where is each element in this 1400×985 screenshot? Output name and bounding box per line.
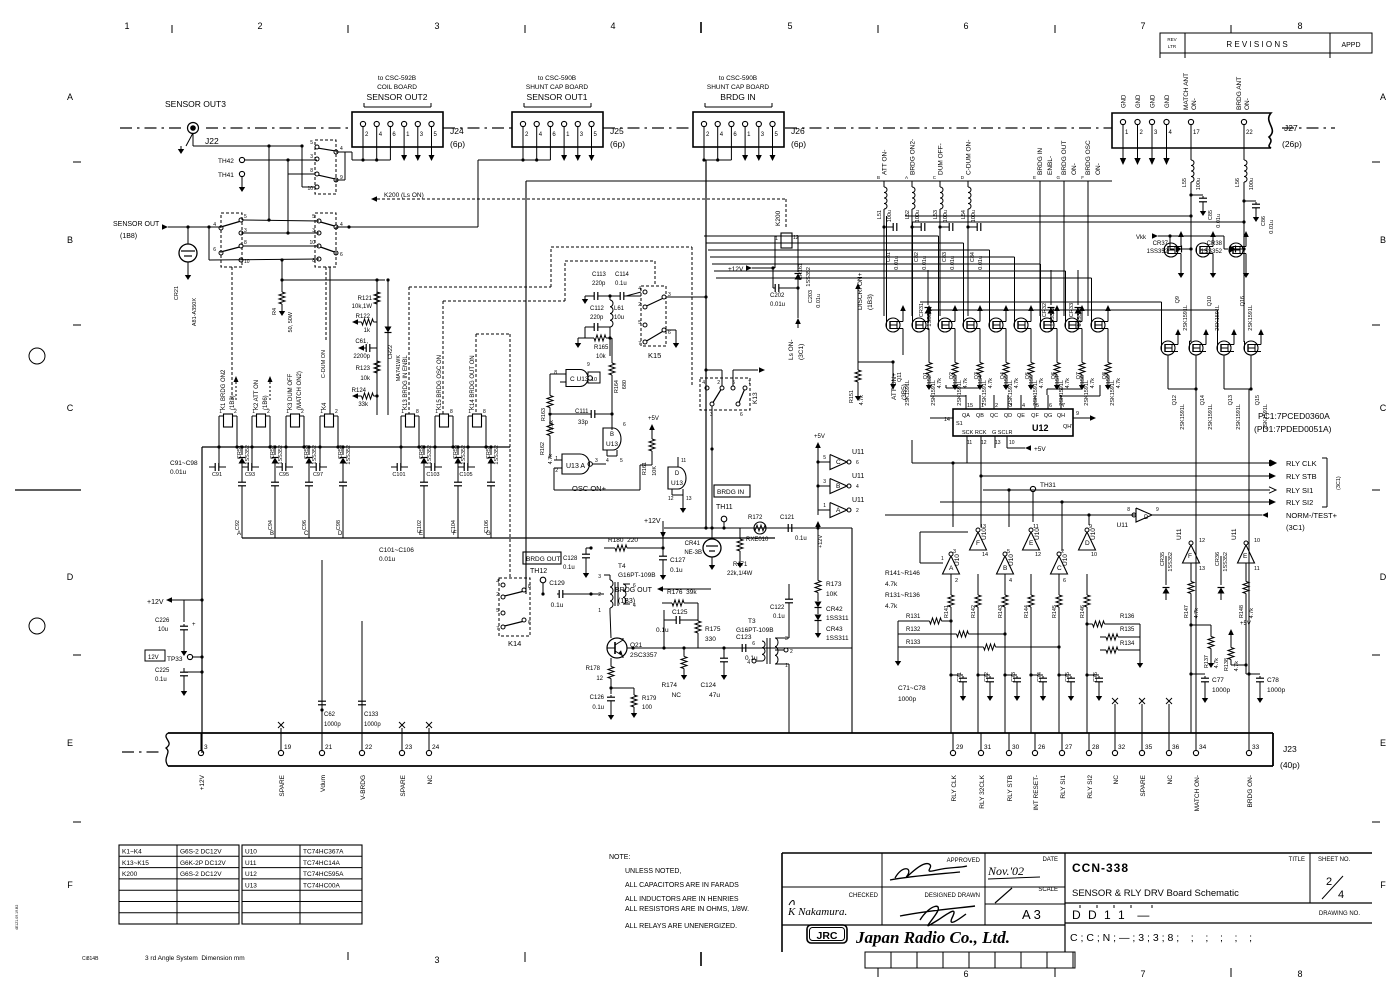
NAND gate U13A bbox=[554, 454, 606, 474]
svg-text:J25: J25 bbox=[610, 126, 624, 136]
connector J25 bbox=[512, 75, 625, 162]
svg-text:5: 5 bbox=[310, 140, 313, 146]
net C-DUM ON wire bbox=[321, 267, 330, 414]
svg-text:Q11: Q11 bbox=[897, 372, 903, 382]
svg-text:G6S-2 DC12V: G6S-2 DC12V bbox=[180, 871, 222, 878]
svg-text:BRDG IN: BRDG IN bbox=[720, 92, 755, 102]
svg-text:6: 6 bbox=[1063, 578, 1066, 584]
svg-text:5: 5 bbox=[312, 214, 315, 220]
svg-text:CR31: CR31 bbox=[919, 303, 925, 317]
svg-text:330: 330 bbox=[705, 636, 716, 643]
svg-text:C: C bbox=[67, 403, 74, 413]
left margin tiny text bbox=[15, 905, 19, 930]
svg-text:C-DUM ON: C-DUM ON bbox=[321, 350, 327, 378]
svg-text:U13: U13 bbox=[606, 441, 618, 448]
surge arrester CR21 bbox=[174, 227, 198, 326]
svg-text:5: 5 bbox=[1036, 403, 1039, 409]
svg-text:C75: C75 bbox=[1065, 672, 1071, 682]
svg-text:6: 6 bbox=[856, 460, 859, 466]
svg-text:G6S-2 DC12V: G6S-2 DC12V bbox=[180, 849, 222, 856]
capacitor C101 bbox=[391, 447, 408, 478]
svg-text:8: 8 bbox=[416, 409, 419, 415]
transistor Q8 bbox=[1091, 305, 1116, 406]
diode CR33 bbox=[1069, 270, 1083, 330]
svg-text:C85: C85 bbox=[1208, 210, 1214, 220]
svg-text:2SK1591L: 2SK1591L bbox=[1208, 404, 1214, 430]
svg-text:TC74HC14A: TC74HC14A bbox=[303, 860, 341, 867]
svg-text:SHUNT CAP BOARD: SHUNT CAP BOARD bbox=[707, 84, 770, 91]
vertical from J25 region bbox=[525, 181, 527, 594]
svg-text:K200: K200 bbox=[775, 210, 782, 226]
svg-text:4.7k: 4.7k bbox=[1234, 661, 1240, 672]
X mark pin 429 bbox=[426, 722, 432, 733]
svg-text:9: 9 bbox=[1156, 507, 1159, 513]
inductor L56 and capacitor C86 bbox=[1235, 125, 1275, 234]
svg-text:Ci814B: Ci814B bbox=[82, 956, 99, 962]
svg-text:C129: C129 bbox=[549, 580, 565, 587]
svg-text:ALL INDUCTORS ARE IN HENRIES: ALL INDUCTORS ARE IN HENRIES bbox=[625, 896, 739, 903]
svg-text:C96: C96 bbox=[302, 520, 308, 530]
transistor Q16 bbox=[1229, 231, 1254, 331]
svg-text:34: 34 bbox=[1199, 744, 1207, 751]
bracket 3C1 bbox=[1322, 458, 1342, 507]
inverter U10E bbox=[1023, 524, 1042, 558]
svg-text:13: 13 bbox=[1199, 566, 1205, 572]
transistor Q5 bbox=[1014, 305, 1039, 406]
svg-text:QD: QD bbox=[1004, 413, 1012, 419]
net SENSOR OUT 1B8 bbox=[113, 221, 221, 240]
svg-text:T3: T3 bbox=[748, 618, 756, 625]
svg-text:(40p): (40p) bbox=[1280, 760, 1300, 770]
capacitor C75 bbox=[1057, 672, 1075, 701]
svg-text:RLY SI1: RLY SI1 bbox=[1286, 486, 1313, 495]
Q12-Q15 gate wires bbox=[920, 249, 1245, 348]
svg-text:1000p: 1000p bbox=[1267, 687, 1285, 694]
transformer T4 bbox=[591, 563, 656, 614]
net RLY CLK bbox=[912, 440, 1317, 468]
diode CR22 bbox=[385, 278, 403, 415]
svg-text:RXE010: RXE010 bbox=[746, 537, 769, 543]
svg-text:R163: R163 bbox=[541, 408, 547, 421]
svg-text:R162: R162 bbox=[540, 442, 546, 455]
inductor L52 capacitor C82 bbox=[905, 210, 928, 270]
svg-text:E: E bbox=[1029, 540, 1034, 547]
svg-text:(1B3): (1B3) bbox=[230, 395, 236, 410]
capacitor C225 bbox=[155, 668, 204, 696]
J23 pin 27 RLY SI1 bbox=[1059, 733, 1072, 799]
svg-text:1000p: 1000p bbox=[364, 722, 381, 728]
svg-text:C105: C105 bbox=[459, 472, 472, 478]
svg-text:4: 4 bbox=[856, 484, 859, 490]
J23 pin 22 V-BRDG bbox=[359, 733, 372, 800]
svg-text:0.01u: 0.01u bbox=[950, 256, 956, 270]
svg-text:24: 24 bbox=[432, 744, 440, 751]
svg-text:E: E bbox=[1243, 553, 1248, 560]
svg-text:10: 10 bbox=[1009, 440, 1015, 446]
svg-text:NC: NC bbox=[427, 775, 434, 785]
svg-text:R138: R138 bbox=[1224, 658, 1230, 671]
svg-text:U13 A: U13 A bbox=[566, 463, 585, 470]
svg-text:R172: R172 bbox=[748, 515, 763, 521]
svg-text:47u: 47u bbox=[709, 692, 720, 699]
svg-text:CR36: CR36 bbox=[1215, 552, 1221, 566]
svg-text:0.1u: 0.1u bbox=[670, 567, 683, 574]
svg-text:JRC: JRC bbox=[816, 930, 837, 942]
label C101-C106 bbox=[379, 547, 414, 563]
svg-text:C91~C98: C91~C98 bbox=[170, 460, 198, 467]
svg-text:5: 5 bbox=[823, 455, 826, 461]
dashed link K14 route bbox=[476, 334, 510, 578]
svg-text:+12V: +12V bbox=[818, 535, 824, 548]
svg-text:G: G bbox=[1056, 175, 1060, 180]
svg-text:1000p: 1000p bbox=[324, 722, 341, 728]
svg-text:K15: K15 bbox=[648, 351, 661, 360]
svg-text:1SS352: 1SS352 bbox=[312, 445, 318, 465]
resistor R161 bbox=[642, 416, 659, 476]
resistor R165 bbox=[575, 327, 612, 360]
svg-text:+5V: +5V bbox=[648, 416, 659, 422]
svg-text:0.1u: 0.1u bbox=[656, 627, 669, 634]
bottom margin text 3rd angle bbox=[145, 955, 245, 962]
svg-text:NC: NC bbox=[1167, 775, 1174, 785]
capacitor C71 bbox=[949, 672, 967, 701]
svg-text:K4: K4 bbox=[322, 402, 328, 410]
wire J24 to contacts bbox=[345, 152, 363, 160]
net DISCRI ON+ bbox=[855, 272, 874, 362]
svg-text:(6p): (6p) bbox=[450, 139, 465, 149]
capacitor C97 bbox=[310, 447, 327, 478]
svg-text:5: 5 bbox=[496, 608, 499, 614]
resistor chain R121 R122 C61 R123 R124 bbox=[352, 278, 380, 415]
relay return bus with letters bbox=[237, 530, 775, 538]
svg-text:1SS352: 1SS352 bbox=[1223, 552, 1229, 572]
wire T4 to Q21 bbox=[610, 612, 611, 638]
svg-text:R136: R136 bbox=[1120, 614, 1135, 620]
svg-text:Vdum: Vdum bbox=[320, 775, 327, 792]
resistor R152 bbox=[926, 355, 943, 390]
relay contacts K2 bbox=[309, 213, 343, 267]
+5V feed U11 bbox=[814, 434, 825, 515]
inverter U11C bbox=[816, 449, 864, 470]
inverter U10A bbox=[943, 549, 962, 584]
wire pin34 col bbox=[1195, 460, 1197, 733]
svg-text:10k,1W: 10k,1W bbox=[352, 304, 373, 310]
svg-text:0.01u: 0.01u bbox=[770, 302, 785, 308]
main wire y181 bbox=[526, 180, 1112, 182]
svg-text:L54: L54 bbox=[961, 210, 967, 219]
svg-text:10: 10 bbox=[309, 240, 315, 246]
svg-text:5: 5 bbox=[244, 214, 247, 220]
diode CR36 bbox=[1215, 552, 1229, 600]
svg-text:3: 3 bbox=[310, 154, 313, 160]
J23 pin 19 SPARE bbox=[278, 733, 291, 797]
svg-text:F: F bbox=[453, 531, 457, 537]
svg-text:2: 2 bbox=[638, 302, 641, 308]
svg-text:10u: 10u bbox=[614, 315, 624, 321]
Q11 source gnd bbox=[902, 354, 904, 356]
svg-text:C103: C103 bbox=[426, 472, 439, 478]
svg-text:K14: K14 bbox=[508, 639, 521, 648]
svg-text:C91: C91 bbox=[212, 472, 222, 478]
svg-text:U12: U12 bbox=[1032, 423, 1049, 433]
svg-text:BRDG ANT: BRDG ANT bbox=[1236, 77, 1243, 110]
svg-text:2: 2 bbox=[1326, 876, 1332, 888]
wires K1 K2 contacts bbox=[209, 160, 478, 262]
svg-text:CCN-338: CCN-338 bbox=[1072, 861, 1129, 875]
svg-text:RLY 32CLK: RLY 32CLK bbox=[979, 774, 986, 808]
svg-text:7: 7 bbox=[638, 341, 641, 347]
svg-text:10: 10 bbox=[1254, 538, 1260, 544]
svg-text:SPARE: SPARE bbox=[400, 774, 407, 796]
svg-text:4.7k: 4.7k bbox=[1116, 378, 1122, 389]
net label BRDG ON2- bbox=[910, 139, 917, 316]
svg-text:T4: T4 bbox=[618, 563, 626, 570]
svg-text:R145: R145 bbox=[1052, 605, 1058, 618]
svg-text:11: 11 bbox=[1033, 524, 1039, 530]
svg-text:K13~K15: K13~K15 bbox=[122, 860, 149, 867]
svg-text:QE: QE bbox=[1017, 413, 1025, 419]
transformer T3 bbox=[736, 618, 793, 669]
wire Vdum bbox=[320, 560, 323, 733]
K200 Ls ON dashed link bbox=[371, 192, 786, 228]
svg-text:2: 2 bbox=[717, 380, 720, 386]
J23 pin 26 INT RESET- bbox=[1032, 733, 1045, 811]
svg-text:0.01u: 0.01u bbox=[170, 469, 187, 476]
svg-text:7: 7 bbox=[496, 626, 499, 632]
svg-text:LTR: LTR bbox=[1168, 44, 1177, 49]
svg-text:QF: QF bbox=[1031, 413, 1039, 419]
svg-text:7: 7 bbox=[748, 380, 751, 386]
svg-text:TH31: TH31 bbox=[1040, 482, 1056, 489]
svg-text:2SK1591L: 2SK1591L bbox=[1180, 404, 1186, 430]
resistor R155 bbox=[1003, 355, 1020, 390]
svg-text:CR22: CR22 bbox=[388, 345, 394, 359]
svg-text:Q9: Q9 bbox=[1175, 296, 1181, 303]
svg-text:L51: L51 bbox=[877, 210, 883, 219]
svg-text:2: 2 bbox=[995, 403, 998, 409]
svg-text:PC1:7PCED0360A: PC1:7PCED0360A bbox=[1258, 411, 1330, 421]
IC type table bbox=[242, 845, 362, 924]
capacitor C226 bbox=[155, 600, 202, 656]
svg-text:6: 6 bbox=[668, 330, 671, 336]
svg-text:11: 11 bbox=[681, 458, 686, 464]
svg-text:Vkk: Vkk bbox=[1136, 235, 1147, 241]
svg-text:12V: 12V bbox=[148, 655, 159, 661]
svg-text:(3C1): (3C1) bbox=[1286, 523, 1305, 532]
capacitor C93 bbox=[242, 447, 259, 478]
svg-text:A: A bbox=[67, 92, 73, 102]
inverter U11E bbox=[1231, 528, 1260, 572]
svg-text:100u: 100u bbox=[1249, 178, 1255, 190]
svg-text:13: 13 bbox=[686, 496, 692, 502]
svg-text:10u: 10u bbox=[158, 627, 168, 633]
svg-text:R4: R4 bbox=[272, 308, 278, 315]
svg-text:2SK1591L: 2SK1591L bbox=[1183, 305, 1189, 331]
svg-text:10k: 10k bbox=[596, 354, 607, 360]
connector J22 bbox=[165, 99, 302, 154]
svg-text:220p: 220p bbox=[590, 315, 604, 321]
resistor R163 bbox=[541, 374, 560, 430]
svg-text:RLY STB: RLY STB bbox=[1007, 775, 1014, 802]
J23 pin 28 RLY SI2 bbox=[1086, 733, 1099, 799]
svg-text:33k: 33k bbox=[358, 402, 369, 408]
svg-text:E: E bbox=[419, 531, 423, 537]
svg-text:C95: C95 bbox=[279, 472, 289, 478]
capacitor C62 bbox=[318, 701, 341, 729]
svg-text:Ls ON-: Ls ON- bbox=[788, 339, 795, 360]
svg-text:DRAWING NO.: DRAWING NO. bbox=[1319, 911, 1360, 917]
FET gate wires bbox=[704, 216, 1092, 325]
test points TH41 TH42 bbox=[218, 157, 245, 192]
svg-text:ON-: ON- bbox=[1071, 163, 1078, 175]
svg-text:ALL RELAYS ARE UNENERGIZED.: ALL RELAYS ARE UNENERGIZED. bbox=[625, 923, 737, 930]
svg-text:4.7k: 4.7k bbox=[988, 378, 994, 389]
svg-text:RLY CLK: RLY CLK bbox=[951, 774, 958, 801]
svg-text:SENSOR OUT2: SENSOR OUT2 bbox=[367, 92, 428, 102]
svg-text:R E V I S I O N S: R E V I S I O N S bbox=[1226, 40, 1287, 49]
svg-text:11: 11 bbox=[1254, 566, 1260, 572]
svg-text:8: 8 bbox=[1297, 21, 1302, 31]
svg-text:6: 6 bbox=[528, 620, 531, 626]
svg-text:100u: 100u bbox=[1196, 178, 1202, 190]
svg-text:SPARE: SPARE bbox=[1140, 774, 1147, 796]
svg-text:B: B bbox=[1380, 235, 1386, 245]
svg-text:6: 6 bbox=[633, 583, 636, 589]
svg-text:1SS352: 1SS352 bbox=[346, 445, 352, 465]
svg-text:21: 21 bbox=[325, 744, 333, 751]
svg-text:4.7k: 4.7k bbox=[1014, 378, 1020, 389]
svg-text:6: 6 bbox=[623, 422, 626, 428]
svg-text:0.1u: 0.1u bbox=[563, 565, 575, 571]
svg-text:R161: R161 bbox=[642, 462, 648, 475]
svg-text:E: E bbox=[1380, 738, 1386, 748]
capacitor C129 bbox=[549, 580, 592, 609]
svg-text:15: 15 bbox=[967, 403, 973, 409]
svg-text:100u: 100u bbox=[915, 210, 921, 222]
svg-text:TC74HC595A: TC74HC595A bbox=[303, 871, 344, 878]
svg-text:NC: NC bbox=[672, 692, 682, 699]
svg-text:K3 DUM OFF: K3 DUM OFF bbox=[288, 373, 294, 410]
resistor R176 bbox=[662, 589, 697, 648]
svg-text:R132: R132 bbox=[906, 627, 921, 633]
svg-text:2: 2 bbox=[790, 649, 793, 655]
inductor L53 capacitor C83 bbox=[933, 210, 956, 270]
svg-text:L55: L55 bbox=[1182, 178, 1188, 187]
border frame column numbers bbox=[124, 21, 1302, 33]
svg-text:GND: GND bbox=[1136, 94, 1142, 108]
svg-text:U10: U10 bbox=[1008, 554, 1015, 566]
relay coil K3 bbox=[286, 371, 304, 447]
diode CR32 bbox=[1042, 270, 1056, 330]
svg-text:D D 1 1 —: D D 1 1 — bbox=[1072, 908, 1151, 922]
label J23 bbox=[1280, 744, 1300, 770]
svg-text:4: 4 bbox=[496, 579, 499, 585]
svg-text:1: 1 bbox=[941, 556, 944, 562]
svg-text:4: 4 bbox=[633, 603, 636, 609]
svg-text:TC74HC367A: TC74HC367A bbox=[303, 849, 344, 856]
svg-text:F: F bbox=[67, 880, 73, 890]
approved signature bbox=[890, 864, 967, 880]
svg-text:CHECKED: CHECKED bbox=[849, 893, 879, 899]
svg-text:TP33: TP33 bbox=[167, 656, 183, 663]
svg-text:B: B bbox=[1003, 565, 1007, 572]
resistor R146 bbox=[1080, 590, 1090, 618]
resistor R4 bbox=[272, 260, 385, 332]
svg-text:12: 12 bbox=[1199, 538, 1205, 544]
resistor R147 bbox=[1184, 563, 1200, 733]
capacitor C73 bbox=[1003, 672, 1021, 701]
wire U13A feedback bbox=[554, 465, 652, 490]
svg-text:C77: C77 bbox=[1212, 677, 1224, 684]
svg-text:C93: C93 bbox=[245, 472, 255, 478]
svg-text:0.1u: 0.1u bbox=[615, 281, 627, 287]
svg-text:F: F bbox=[1081, 175, 1084, 180]
svg-text:C-DUM ON-: C-DUM ON- bbox=[966, 140, 973, 175]
svg-text:QH: QH bbox=[1057, 413, 1065, 419]
svg-text:L56: L56 bbox=[1235, 178, 1241, 187]
svg-text:C98: C98 bbox=[336, 520, 342, 530]
svg-text:R121: R121 bbox=[358, 296, 373, 302]
svg-text:NE-3B: NE-3B bbox=[684, 550, 702, 556]
svg-text:RLY SI1: RLY SI1 bbox=[1060, 775, 1067, 799]
svg-text:K13 BRDG IN ENBL: K13 BRDG IN ENBL bbox=[403, 355, 409, 410]
svg-text:U13: U13 bbox=[245, 882, 257, 889]
relay coil K15 bbox=[435, 355, 453, 447]
inverter U10B bbox=[997, 549, 1016, 584]
inductor L51 capacitor C81 bbox=[877, 210, 900, 270]
svg-text:23: 23 bbox=[405, 744, 413, 751]
svg-text:4: 4 bbox=[606, 458, 609, 464]
svg-text:1000p: 1000p bbox=[1212, 687, 1230, 694]
svg-text:R131: R131 bbox=[906, 614, 921, 620]
svg-text:C73: C73 bbox=[1011, 672, 1017, 682]
svg-text:ATT ON-: ATT ON- bbox=[882, 150, 889, 175]
transistor Q12 bbox=[1161, 329, 1186, 430]
svg-text:2: 2 bbox=[598, 592, 601, 598]
resistor R145 bbox=[1052, 590, 1062, 618]
svg-text:ALL CAPACITORS ARE IN FARADS: ALL CAPACITORS ARE IN FARADS bbox=[625, 882, 739, 889]
svg-text:14: 14 bbox=[982, 552, 988, 558]
svg-text:U10: U10 bbox=[245, 849, 257, 856]
transistor Q14 bbox=[1189, 329, 1214, 430]
svg-text:K1~K4: K1~K4 bbox=[122, 849, 142, 856]
svg-text:R175: R175 bbox=[705, 626, 721, 633]
capacitor C105 bbox=[458, 447, 475, 478]
relay type table bbox=[119, 845, 239, 924]
svg-text:Q13: Q13 bbox=[1228, 395, 1234, 405]
svg-text:R141~R146: R141~R146 bbox=[885, 570, 920, 577]
capacitor C123 bbox=[736, 634, 758, 662]
resistor R143 bbox=[998, 590, 1008, 618]
bottom margin text Ci814B bbox=[82, 956, 99, 962]
svg-text:K15 BRDG OSC ON: K15 BRDG OSC ON bbox=[437, 355, 443, 410]
svg-text:D: D bbox=[675, 471, 680, 477]
svg-text:10K: 10K bbox=[652, 466, 658, 476]
svg-text:C92: C92 bbox=[235, 520, 241, 530]
resistor R153 bbox=[952, 355, 969, 390]
svg-text:1: 1 bbox=[823, 503, 826, 509]
svg-text:(1B3): (1B3) bbox=[867, 294, 874, 310]
J23 pin 24 NC bbox=[426, 733, 439, 784]
svg-text:C74: C74 bbox=[1037, 672, 1043, 682]
inductor L55 and capacitor C85 bbox=[1182, 125, 1222, 228]
resistors R136 R135 R134 bbox=[1085, 614, 1143, 668]
svg-text:35: 35 bbox=[1145, 744, 1153, 751]
inverter U11F bbox=[1176, 528, 1205, 572]
transistor Q13 bbox=[1217, 329, 1242, 430]
svg-text:F: F bbox=[1380, 880, 1386, 890]
svg-text:R143: R143 bbox=[998, 605, 1004, 618]
